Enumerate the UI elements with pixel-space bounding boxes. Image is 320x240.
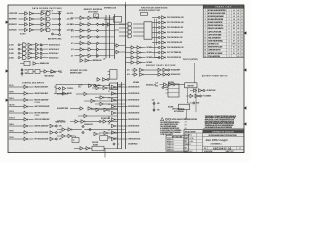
wire A15 to bus <box>99 17 106 19</box>
wire U37 to bus <box>104 147 122 149</box>
revision table frame <box>166 135 189 151</box>
bus tap A15 <box>106 17 115 19</box>
wire A10 seg2 <box>91 49 96 51</box>
gate U30b <box>81 120 85 123</box>
svg-text:SHEET 1 OF 1: SHEET 1 OF 1 <box>226 151 235 153</box>
wire U27 to bus <box>104 97 117 99</box>
gate U38i <box>112 137 116 140</box>
revision row line 2 <box>166 142 189 144</box>
wire A12 to bus <box>99 36 106 38</box>
connector pin J1-4 <box>96 36 98 38</box>
connector pin J4-3 <box>55 138 57 140</box>
wire U31 to R12 <box>106 121 108 123</box>
svg-text:FUNCTION DECODER MC6800: FUNCTION DECODER MC6800 <box>141 7 168 9</box>
wire U3-U4 link 3 <box>40 54 43 56</box>
bus tap A10 <box>106 49 115 51</box>
wire D2 across bus <box>116 99 127 101</box>
wire U22 to J4 link 1 <box>53 125 55 127</box>
svg-text:BAT SUPPLY REG: BAT SUPPLY REG <box>48 37 62 40</box>
wire U26 input <box>92 87 96 89</box>
gate U19a <box>190 94 193 97</box>
wire sync chain a <box>99 24 102 26</box>
wire decoder input 4 <box>119 35 128 37</box>
wire battery vertical <box>195 88 197 112</box>
+5V rail tick <box>58 11 62 13</box>
wire U10 output pin 15 <box>152 17 158 19</box>
wire A14 seg <box>84 23 88 25</box>
wire U15-U16 link 2 <box>161 74 163 76</box>
gate U5d <box>36 56 39 59</box>
title block left row line 5 <box>184 148 203 150</box>
svg-text:+5V 4.7K: +5V 4.7K <box>67 12 74 15</box>
wire U39 pin 2 <box>166 89 169 91</box>
gate U26a <box>96 86 99 89</box>
bus tap row D0 <box>126 47 132 49</box>
gate U38g <box>112 124 116 127</box>
select line vertical 1 <box>153 19 155 58</box>
gate U13b <box>137 51 141 54</box>
wire A14 in <box>75 23 81 25</box>
wire COMPUTER input <box>19 13 25 15</box>
svg-text:SYNC MC14050 BUF: SYNC MC14050 BUF <box>35 118 50 121</box>
wire U10 output pin 9 <box>152 47 158 49</box>
revision triangle delta 1 <box>161 117 164 120</box>
parts table row line 3 <box>203 17 244 19</box>
wire J1-4 b <box>32 57 35 59</box>
parts table column line 3 <box>231 5 233 58</box>
wire IRQ ext <box>54 86 56 88</box>
gate U21a <box>24 85 28 88</box>
wire U12-U13 link 4 <box>134 62 137 64</box>
connector pin J4-2 <box>55 131 57 133</box>
+5V tie box <box>94 14 99 17</box>
svg-text:U1: U1 <box>233 10 235 12</box>
svg-text:SW DIP-8 SPST SLIDE: SW DIP-8 SPST SLIDE <box>208 47 223 49</box>
connector pin J1-1 <box>18 44 20 46</box>
wire IRQ out <box>29 86 34 88</box>
parts table row line 7 <box>203 29 244 31</box>
wire P1.6 branch <box>186 95 190 97</box>
wire R/W stub <box>9 132 24 134</box>
regulator output pin <box>59 34 61 36</box>
gate U5b <box>36 47 39 50</box>
connector pin P2-6 <box>158 46 160 48</box>
wire A13 to bus <box>99 30 106 32</box>
svg-text:MC14069 +5V: MC14069 +5V <box>146 84 157 87</box>
connector pin P2-0 <box>158 16 160 18</box>
gate U8a <box>88 16 91 19</box>
svg-text:10: 10 <box>204 37 206 39</box>
svg-text:R/W MC14050 BUF: R/W MC14050 BUF <box>35 131 49 134</box>
wire A9 seg2 <box>91 55 96 57</box>
svg-text:GND: GND <box>25 73 28 75</box>
gate U17b <box>169 83 173 86</box>
wire R17-R18 chain <box>21 68 23 77</box>
gate U36a <box>80 147 83 150</box>
wire A9 to bus <box>99 55 106 57</box>
wire U33 pair link <box>65 135 68 137</box>
wire J1-1 b <box>32 44 35 46</box>
wire U49 out <box>55 71 57 73</box>
gate U11f <box>162 41 166 44</box>
gate U21d <box>24 105 28 108</box>
svg-text:3.58 MHZ OSC: 3.58 MHZ OSC <box>84 124 93 126</box>
gate U11i <box>162 56 166 59</box>
gate U7c <box>80 29 84 32</box>
gate U26b <box>103 86 107 89</box>
wire J5 to U39 <box>164 87 168 89</box>
svg-text:B: B <box>242 22 243 24</box>
connector pin P2-7 <box>158 51 160 53</box>
gate U17a <box>164 83 167 86</box>
gate U22c <box>50 137 53 140</box>
wire U42 pin 2 <box>108 74 110 76</box>
svg-text:C ECO 102: C ECO 102 <box>167 144 174 146</box>
gate U9a <box>128 22 132 26</box>
svg-text:TO MPU 6: TO MPU 6 <box>67 88 73 90</box>
svg-text:Jan CPU Logic: Jan CPU Logic <box>206 138 229 142</box>
gate U2f <box>47 17 51 21</box>
svg-text:J1-2 EN: J1-2 EN <box>9 49 14 51</box>
gate U2d <box>41 28 44 31</box>
pull-up bus wire <box>59 12 61 32</box>
resistor R15 <box>40 52 42 54</box>
svg-text:B: B <box>242 47 243 49</box>
gate U1g <box>29 23 33 26</box>
wire U29 input <box>91 109 96 111</box>
wire A14 mid <box>144 74 158 76</box>
wire U50b out <box>119 51 125 53</box>
svg-text:J1-3 EN: J1-3 EN <box>9 53 14 55</box>
revision row line 5 <box>166 150 189 152</box>
svg-text:P2.0-P2.7 (OUTPUT): P2.0-P2.7 (OUTPUT) <box>183 59 198 61</box>
gate U4c <box>28 52 32 55</box>
wire U10 output pin 10 <box>152 42 158 44</box>
gate U40a <box>80 59 83 62</box>
svg-text:MC1488: MC1488 <box>133 81 139 84</box>
gate U21b <box>24 92 28 95</box>
wire U6 input <box>50 72 56 74</box>
revision column line 2 <box>183 138 185 151</box>
wire U12-U13 link 2 <box>134 52 137 54</box>
svg-text:NOTED: NOTED <box>189 138 193 140</box>
title block left row line 1 <box>184 135 203 137</box>
svg-text:TELEPRINT: TELEPRINT <box>9 19 17 21</box>
bus tap row D2 <box>126 57 132 59</box>
parts list table frame <box>203 5 244 58</box>
wire U10 output pin 7 <box>152 57 158 59</box>
svg-text:B: B <box>242 56 243 58</box>
svg-text:B: B <box>242 19 243 21</box>
wire A10 to bus <box>99 49 106 51</box>
gate U28a <box>100 102 103 105</box>
gate U21c <box>24 98 28 101</box>
gate U22a <box>50 124 53 127</box>
svg-text:13: 13 <box>204 47 206 49</box>
gate U6a <box>33 62 36 65</box>
wire H2 <box>70 108 80 110</box>
IC U10 pre-latch <box>141 12 148 15</box>
gate U41b <box>103 78 107 81</box>
connector pin P2-2 <box>158 26 160 28</box>
gate U12c <box>131 56 134 59</box>
wire J1-2 b <box>32 48 35 50</box>
gate U16b <box>158 73 161 76</box>
wire D7 across bus <box>116 132 127 134</box>
parts table row line 6 <box>203 26 244 28</box>
wire U50 in b <box>115 51 117 53</box>
wire STB across bus <box>116 138 127 140</box>
wire U10 output pin 11 <box>152 37 158 39</box>
gate U29a <box>96 108 99 111</box>
address bus line 1 <box>105 15 107 58</box>
svg-text:P2.7 CS7 TIMER SEL: P2.7 CS7 TIMER SEL <box>167 52 181 54</box>
svg-text:STB: STB <box>108 137 110 139</box>
resistor R16 <box>40 56 42 58</box>
svg-text:R9: R9 <box>233 28 235 30</box>
address bus line 2 <box>109 15 111 58</box>
gate U32b <box>68 128 72 131</box>
IC U6 enable latch <box>24 61 30 65</box>
svg-text:IRQ MC14050 BUF: IRQ MC14050 BUF <box>35 86 49 89</box>
svg-text:U5: U5 <box>233 22 235 24</box>
wire to U10 pin 4 <box>133 35 144 37</box>
wire U36b to U37 <box>90 147 92 149</box>
wire D4 across bus <box>116 112 127 114</box>
gate U1f <box>29 17 33 20</box>
gate U21i <box>24 137 28 140</box>
wire A10 seg <box>84 49 88 51</box>
connector pin P2-4 <box>158 36 160 38</box>
svg-text:MC4024 OSC: MC4024 OSC <box>171 73 181 76</box>
gate U2c <box>41 23 44 26</box>
svg-text:15: 15 <box>204 53 206 55</box>
gate U8b <box>88 23 91 26</box>
parts table row line 2 <box>203 14 244 16</box>
gate U5c <box>36 52 39 55</box>
wire baud to bus <box>111 121 118 123</box>
connector pin J1-4 <box>18 57 20 59</box>
bus tap A12 <box>106 36 115 38</box>
svg-text:D ECO 103: D ECO 103 <box>167 147 174 149</box>
svg-text:+5V: +5V <box>103 58 105 60</box>
wire A15 in <box>75 17 81 19</box>
wire A13 in <box>75 30 81 32</box>
note circle 1 <box>166 118 168 120</box>
svg-text:J1: J1 <box>233 50 235 52</box>
gate U9b <box>128 26 132 30</box>
wire A15 seg <box>84 17 88 19</box>
title block left column divider <box>202 133 204 153</box>
svg-text:B: B <box>242 31 243 33</box>
svg-text:DATA MODEM SWITCHES: DATA MODEM SWITCHES <box>32 7 62 10</box>
select line vertical 2 <box>155 19 157 45</box>
title block frame <box>184 130 244 153</box>
revision row line 1 <box>166 139 189 141</box>
title block company band <box>203 135 244 137</box>
title block left row line 4 <box>184 145 203 147</box>
svg-text:D1 MC8T26 BUS: D1 MC8T26 BUS <box>128 93 139 95</box>
wire J1-4 c <box>42 57 48 59</box>
gate U23a <box>84 92 87 95</box>
svg-text:D7: D7 <box>185 125 187 127</box>
wire U24b output <box>92 108 117 110</box>
wire A10 in <box>75 49 81 51</box>
gate U8f <box>88 48 91 51</box>
wire decoder input 3 <box>119 31 128 33</box>
wire latch in <box>20 63 24 65</box>
ground pin <box>193 102 195 104</box>
IC U44 led driver <box>110 83 118 90</box>
svg-text:X .01: X .01 <box>189 135 192 137</box>
gate U3d <box>23 56 27 60</box>
svg-text:PHI1 PHI2: PHI1 PHI2 <box>92 142 98 144</box>
wire to U10 pin 2 <box>133 27 144 29</box>
resistor R17 <box>21 69 23 71</box>
wire A12 seg2 <box>91 36 96 38</box>
gate U8e <box>88 42 91 45</box>
connector pin P2-8 <box>158 56 160 58</box>
gate U49a <box>44 70 47 73</box>
gate U1c <box>25 23 28 26</box>
gate U8c <box>88 29 91 32</box>
svg-text:D2 MC8T26 BUS: D2 MC8T26 BUS <box>128 100 139 102</box>
note circle 2 <box>169 118 171 120</box>
svg-text:REFRESH EN: REFRESH EN <box>93 60 102 62</box>
svg-text:B: B <box>242 37 243 39</box>
parts table row line 9 <box>203 35 244 37</box>
gate U32a <box>62 128 65 131</box>
wire D6 across bus <box>116 125 127 127</box>
wire AUX RADIO input <box>19 29 25 31</box>
wire U32 input <box>57 129 62 131</box>
wire H1 <box>76 93 84 95</box>
wire PH2 out <box>29 138 34 140</box>
connector pin J1-2 <box>96 23 98 25</box>
wire decoder input 1 <box>119 23 128 25</box>
wire sync latch input <box>104 18 114 20</box>
pull-up resistor R2 <box>58 18 60 20</box>
gate U15d <box>140 73 144 76</box>
gate U11h <box>162 51 166 54</box>
wire osc chain <box>84 129 99 131</box>
wire MODEM RX input <box>19 23 25 25</box>
revision column line 1 <box>169 138 171 151</box>
svg-text:C8: C8 <box>233 34 235 36</box>
svg-text:RES MC14050 BUF: RES MC14050 BUF <box>35 99 49 102</box>
svg-text:D1: D1 <box>233 41 235 43</box>
wire RDY stub <box>9 112 24 114</box>
wire U10 output pin 13 <box>152 27 158 29</box>
wire A15 in <box>132 69 135 71</box>
gate U11a <box>162 16 166 19</box>
parts table row line 11 <box>203 41 244 43</box>
connector pin P2-3 <box>158 31 160 33</box>
connector pin J1-3 <box>96 29 98 31</box>
wire SYNC out <box>29 119 34 121</box>
parts table row line 5 <box>203 23 244 25</box>
wire A13 seg <box>84 30 88 32</box>
svg-text:B ECO 101: B ECO 101 <box>167 142 174 144</box>
svg-text:MODEM RX: MODEM RX <box>9 24 18 26</box>
svg-text:Y1: Y1 <box>233 37 235 39</box>
diode CR1 <box>203 89 205 91</box>
gate U19b <box>195 94 199 97</box>
svg-text:R1: R1 <box>233 25 235 27</box>
gate U35b <box>104 131 108 134</box>
wire J1-2 a <box>20 48 23 50</box>
wire U25a output <box>87 115 117 117</box>
wire U29 to bus <box>108 109 117 111</box>
gate U24a <box>80 107 83 110</box>
svg-text:OSC: OSC <box>78 87 81 89</box>
connector pin J2-2 <box>167 69 169 71</box>
gate U3c <box>23 51 27 55</box>
capacitor C3 <box>99 120 101 122</box>
parts table column line 2 <box>226 5 228 58</box>
gate U1b <box>25 17 28 20</box>
wire HALT stub <box>9 106 24 108</box>
bus rung 2 <box>118 103 126 105</box>
svg-text:SYSTEM CLOCK: SYSTEM CLOCK <box>104 8 117 10</box>
parts table row line 16 <box>203 57 244 59</box>
connector pin J1-5 <box>96 42 98 44</box>
pull-up resistor R1 <box>58 12 60 14</box>
svg-text:B: B <box>242 28 243 30</box>
diode CR2 <box>199 95 201 97</box>
IC U45 sync latch <box>114 17 122 23</box>
svg-text:MC6800: MC6800 <box>147 47 153 49</box>
peripheral bus line 1 <box>117 82 119 149</box>
wire A11 to bus <box>99 42 106 44</box>
wire COMPUTER mid <box>34 13 41 15</box>
gate U38e <box>112 111 116 114</box>
gate U12b <box>131 51 134 54</box>
svg-text:12: 12 <box>204 44 206 46</box>
gate U3a <box>23 43 27 47</box>
wire A12 in <box>75 36 81 38</box>
wire D1 across bus <box>116 93 127 95</box>
gate U38f <box>112 118 116 121</box>
wire U32 pair link <box>65 129 68 131</box>
gate U21g <box>24 124 28 127</box>
wire RES out <box>29 99 34 101</box>
svg-text:BUSY: BUSY <box>58 71 62 73</box>
wire battery gnd drop <box>186 110 188 118</box>
svg-text:DECODER: DECODER <box>88 11 98 13</box>
gate U16c <box>163 68 167 71</box>
wire NMI stub <box>9 93 24 95</box>
wire U23a output <box>87 93 117 95</box>
wire U43 to U44 <box>96 85 110 87</box>
svg-text:RDY MC14050 BUF: RDY MC14050 BUF <box>35 112 49 115</box>
gate U2g <box>47 23 51 27</box>
number band divider 2 <box>236 146 238 149</box>
wire battery left vertical <box>187 88 189 103</box>
svg-text:( SCHEMATIC ): ( SCHEMATIC ) <box>211 142 222 145</box>
wire AUX RADIO to pull-up <box>52 29 59 31</box>
wire U6 pair link <box>59 72 62 74</box>
connector pin P2-1 <box>158 21 160 23</box>
wire U15-U16 link 1 <box>161 69 163 71</box>
title block left row line 3 <box>184 142 203 144</box>
svg-text:B: B <box>242 41 243 43</box>
svg-text:B: B <box>242 50 243 52</box>
svg-text:REVISIONS: REVISIONS <box>172 136 182 138</box>
wire strobe out <box>40 70 44 72</box>
gate U31a <box>103 120 106 123</box>
revision table header <box>166 137 189 139</box>
